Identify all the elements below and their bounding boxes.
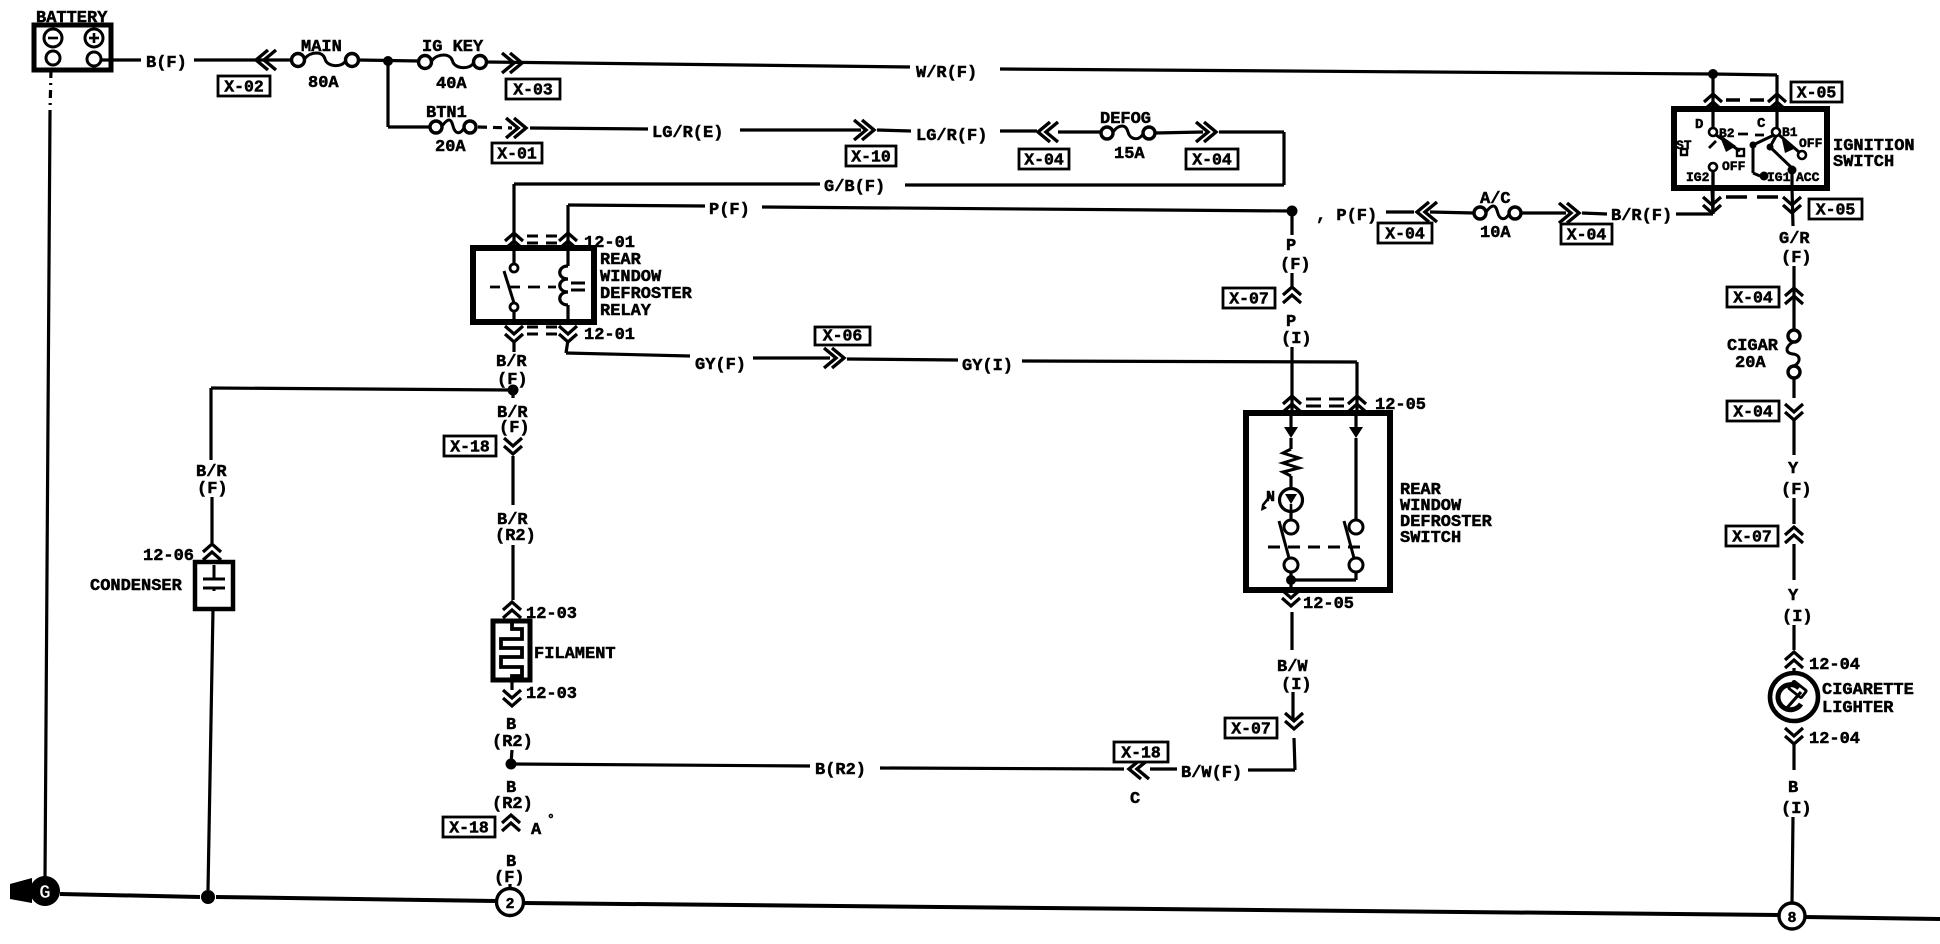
fuse A/C 10A: [1474, 207, 1486, 219]
svg-text:IG1: IG1: [1767, 170, 1791, 185]
wire junction down: [1290, 211, 1293, 235]
switch right contact bottom: [1349, 558, 1363, 572]
wire X-04 to A/C fuse: [1430, 212, 1474, 213]
connector chevron X-10: [854, 120, 874, 140]
connector label X-01: [492, 143, 542, 163]
wire W/R(F) right segment: [1000, 69, 1713, 74]
node junction B(R2): [506, 759, 517, 770]
wire to X-07: [1792, 498, 1795, 524]
connector 12-04 chevron bottom: [1785, 728, 1803, 744]
wire B(F) to MAIN fuse: [194, 58, 291, 61]
wire to X-04 A/C side: [1386, 210, 1414, 213]
connector 12-05 chevron right top: [1348, 396, 1366, 412]
svg-text:GY(I): GY(I): [962, 357, 1013, 376]
svg-text:B/R(F): B/R(F): [1611, 207, 1672, 226]
wire drop to ignition B2: [1711, 74, 1714, 128]
connector chevron X-07 down: [1285, 713, 1303, 729]
wire to X-07: [1290, 273, 1293, 287]
svg-text:OFF: OFF: [1799, 136, 1823, 151]
wire battery negative down: [45, 112, 50, 878]
svg-text:ACC: ACC: [1796, 170, 1820, 185]
relay box rear window defroster relay: [473, 248, 594, 322]
svg-text:12-05: 12-05: [1303, 595, 1354, 614]
wire resistor to indicator lamp: [1289, 476, 1292, 489]
wire bottom link to junction: [1291, 578, 1356, 581]
connector label X-04 below fuse: [1727, 401, 1779, 421]
svg-text:B/W(F): B/W(F): [1181, 764, 1242, 783]
wire GY(I) to switch corner: [1022, 361, 1357, 362]
connector label X-07 drop: [1223, 288, 1275, 308]
svg-text:X-06: X-06: [823, 327, 863, 346]
filament heating element meander: [501, 621, 522, 681]
connector chevron X-03: [502, 53, 522, 73]
wire X-07 up to B/W(I) label: [1291, 692, 1294, 719]
connector 12-05 mating dashes: [1306, 399, 1344, 406]
wire filament to 12-03: [510, 680, 513, 690]
connector chevron X-04 a/c out: [1559, 203, 1579, 223]
fuse MAIN 80A: [292, 54, 305, 67]
wire right branch down: [1354, 438, 1357, 520]
svg-text:X-18: X-18: [450, 438, 490, 457]
wire IG2 exit down to corner: [1712, 188, 1713, 214]
wire ground bus segment 1: [60, 894, 200, 897]
wire up to defroster switch 12-05: [1290, 612, 1293, 650]
wire ground bus segment 4: [1805, 917, 1940, 919]
connector X-05 chevron left bottom: [1703, 197, 1721, 213]
connector 12-01 mating dashes top: [527, 236, 557, 243]
connector 12-01 chevron right (relay top): [559, 233, 577, 249]
wire to LG/R(E) label: [530, 128, 648, 129]
connector chevron X-04 down right col: [1785, 404, 1803, 420]
wire down into defroster switch right pin: [1355, 362, 1358, 412]
relay switch blade: [504, 271, 514, 303]
connector chevron X-07 up right col: [1785, 527, 1803, 543]
relay switch contact top: [510, 264, 518, 272]
connector 12-06 chevron: [203, 544, 221, 560]
svg-text:C: C: [1757, 116, 1766, 132]
connector 12-01 chevron left (relay bottom): [505, 326, 523, 342]
connector label X-04: [1019, 149, 1069, 169]
connector 12-01 chevron left (relay top): [505, 233, 523, 249]
ignition contact IG2: [1709, 163, 1717, 171]
battery pin positive: [87, 52, 101, 66]
wire switch left feed: [1289, 413, 1292, 428]
svg-text:(F): (F): [197, 480, 228, 499]
node junction B/R to condenser branch: [508, 385, 519, 396]
ignition switch box: [1674, 109, 1827, 188]
svg-text:40A: 40A: [436, 75, 467, 94]
connector X-05 chevron right top: [1768, 94, 1786, 110]
switch right contact top: [1349, 520, 1363, 534]
svg-text:12-03: 12-03: [526, 605, 577, 624]
resistor illumination dropping: [1283, 449, 1299, 476]
svg-text:B: B: [1788, 779, 1798, 798]
svg-text:P(F): P(F): [709, 201, 750, 220]
wire to CIGAR fuse: [1792, 266, 1795, 330]
wire left contact to exit: [1289, 572, 1292, 590]
svg-text:(R2): (R2): [492, 795, 533, 814]
svg-text:X-04: X-04: [1024, 151, 1064, 170]
svg-text:OFF: OFF: [1722, 159, 1746, 174]
svg-text:X-04: X-04: [1192, 151, 1232, 170]
wire X-06 to GY(I) label: [847, 359, 958, 360]
svg-text:(F): (F): [1781, 481, 1812, 500]
wire junction down to BTN1 fuse: [386, 61, 389, 127]
wire right contact to bottom link: [1354, 572, 1357, 580]
svg-text:20A: 20A: [435, 138, 466, 157]
wire to 12-06: [210, 497, 213, 543]
connector chevron X-18 down: [504, 438, 522, 454]
connector 12-03 chevron bottom: [503, 690, 521, 706]
wire drop to ignition B1: [1775, 75, 1778, 128]
wire X-18 to B/R(R2) label: [511, 456, 514, 505]
connector label X-05 bottom: [1809, 199, 1862, 219]
connector label X-03: [506, 79, 560, 99]
wire to ground point 8: [1792, 817, 1793, 903]
wire down to defroster relay switch pin: [566, 205, 569, 248]
svg-text:RELAY: RELAY: [600, 302, 652, 321]
wire GY(F) to X-06: [753, 356, 830, 359]
wire to 12-04: [1792, 625, 1795, 650]
connector label X-04: [1186, 149, 1238, 169]
fuse CIGAR 20A: [1788, 330, 1800, 342]
svg-text:CIGARETTE: CIGARETTE: [1822, 681, 1914, 700]
node junction switch output: [1286, 575, 1296, 585]
wire relay switch pin inside: [512, 248, 515, 264]
wire B(R2) to X-18: [880, 768, 1124, 769]
switch left contact top: [1284, 520, 1298, 534]
ignition arm B1 to OFF right with arrowhead: [1778, 134, 1799, 152]
svg-text:(R2): (R2): [495, 527, 536, 546]
connector chevron X-01: [506, 118, 526, 138]
wire X-18 to B/W(F) label: [1150, 767, 1177, 770]
wire branch to condenser column: [211, 388, 513, 390]
wire G/B(F) left segment: [514, 182, 820, 185]
wire P(F) left segment: [568, 205, 705, 206]
connector chevron X-04 defog out: [1196, 122, 1216, 142]
wire stub to ignition B1 drop: [1713, 74, 1777, 75]
svg-text:(F): (F): [1280, 256, 1311, 275]
ignition ST arm tick: [1709, 141, 1716, 148]
wire GY(F) left segment: [566, 353, 690, 356]
svg-text:12-03: 12-03: [526, 685, 577, 704]
svg-text:Y: Y: [1788, 460, 1799, 479]
connector 12-03 chevron top: [503, 602, 521, 618]
svg-text:X-04: X-04: [1385, 225, 1425, 244]
svg-text:X-07: X-07: [1231, 720, 1271, 739]
battery negative terminal: [44, 29, 62, 47]
svg-text:P: P: [1286, 237, 1296, 256]
ground point circle 2: [497, 889, 524, 916]
battery B1: [34, 25, 111, 70]
ignition contact B1: [1772, 128, 1780, 136]
ignition contact B2: [1709, 128, 1717, 136]
wire A/C fuse to X-04: [1521, 211, 1566, 214]
wire relay B/R output: [512, 340, 515, 352]
node junction MAIN output: [383, 56, 393, 66]
svg-text:FILAMENT: FILAMENT: [534, 645, 616, 664]
filament box: [493, 621, 530, 680]
wire X-04 to B/R(F) label: [1582, 213, 1607, 214]
wire ACC exit down: [1792, 188, 1793, 226]
wire into lighter: [1792, 668, 1795, 673]
battery pin negative: [46, 51, 60, 65]
connector chevron X-02: [256, 50, 276, 70]
svg-text:W/R(F): W/R(F): [916, 64, 977, 83]
svg-text:SWITCH: SWITCH: [1400, 529, 1461, 548]
wire relay output down: [566, 340, 568, 353]
svg-text:X-07: X-07: [1229, 290, 1269, 309]
connector label X-04 right col: [1727, 287, 1779, 307]
switch right blade: [1344, 521, 1354, 558]
wire dashed BTN1 to X-01: [478, 127, 512, 128]
svg-text:X-10: X-10: [851, 148, 891, 167]
wire ground bus segment 3: [524, 903, 1779, 915]
wire MAIN fuse to junction and IG KEY fuse: [358, 60, 419, 61]
wire LG/R(F) to X-04: [1000, 129, 1037, 132]
wire relay switch contact to box bottom: [512, 311, 515, 322]
switch mechanical link dashed: [1268, 546, 1360, 549]
connector chevron X-18 return: [1129, 759, 1149, 779]
connector chevron X-04 defog in: [1038, 122, 1058, 142]
connector label X-06: [815, 327, 870, 345]
fuse BTN1 20A: [430, 121, 442, 133]
svg-text:C: C: [1130, 790, 1140, 809]
svg-text:G/B(F): G/B(F): [824, 178, 885, 197]
svg-text:D: D: [1695, 117, 1703, 133]
wire into ground point 2: [508, 884, 511, 889]
ground symbol G: [30, 876, 60, 906]
wire lamp to switch contact: [1289, 511, 1292, 521]
connector 12-04 chevron top: [1785, 652, 1803, 668]
connector label X-02: [218, 76, 270, 96]
connector chevron X-06: [824, 348, 844, 368]
wire lighter down: [1792, 744, 1795, 770]
connector label X-05 top: [1791, 82, 1842, 102]
svg-text:15A: 15A: [1114, 145, 1145, 164]
svg-text:X-04: X-04: [1733, 403, 1773, 422]
connector label X-07 right col: [1726, 526, 1778, 546]
connector label X-10: [846, 146, 896, 166]
ignition arm B1 to ACC: [1767, 144, 1774, 151]
wire condenser to ground bus: [208, 609, 213, 890]
connector 12-01 chevron right (relay bottom): [559, 326, 577, 342]
svg-text:12-06: 12-06: [143, 547, 194, 566]
connector chevron X-18 up: [502, 815, 520, 831]
node junction at ignition switch feed: [1708, 69, 1718, 79]
svg-text:X-03: X-03: [513, 81, 553, 100]
wire X-04 to DEFOG fuse: [1058, 130, 1101, 133]
wire B(R2) left segment: [511, 764, 810, 766]
connector chevron X-04 up right col: [1785, 288, 1803, 304]
svg-text:A: A: [531, 821, 542, 840]
wire into junction: [511, 386, 514, 398]
wire X-07 down: [1792, 544, 1795, 580]
wire ACC down inside box: [1790, 170, 1793, 188]
svg-text:20A: 20A: [1735, 354, 1766, 373]
svg-text:(I): (I): [1281, 676, 1312, 695]
wire G/B(F) right segment: [905, 183, 1284, 186]
svg-text:(F): (F): [499, 419, 530, 438]
svg-text:B/R: B/R: [496, 353, 527, 372]
ignition contact ACC: [1788, 166, 1797, 175]
svg-text:CONDENSER: CONDENSER: [90, 577, 183, 596]
wire W/R(F) left segment: [486, 62, 910, 67]
node junction P(F): [1287, 206, 1298, 217]
switch left blade: [1279, 521, 1289, 558]
wire switch right feed: [1354, 413, 1357, 428]
svg-text:X-04: X-04: [1733, 289, 1773, 308]
svg-text:(I): (I): [1281, 330, 1312, 349]
wire battery negative down dashed: [50, 70, 51, 112]
wire up into ignition switch IG2: [1711, 170, 1714, 214]
svg-text:B/W: B/W: [1277, 658, 1308, 677]
svg-text:X-18: X-18: [1121, 744, 1161, 763]
svg-text:12-04: 12-04: [1809, 730, 1860, 749]
connector chevron X-04 a/c in: [1417, 202, 1437, 222]
node junction condenser at bus: [201, 890, 215, 904]
svg-text:LG/R(F): LG/R(F): [916, 127, 987, 146]
svg-text:X-18: X-18: [449, 819, 489, 838]
cigarette lighter symbol: [1770, 673, 1818, 721]
wire corner down to G/B(F) line: [1282, 132, 1285, 185]
wire relay coil bottom lead: [566, 305, 569, 322]
wire IG2 down inside box: [1711, 171, 1714, 188]
svg-text:G: G: [39, 882, 50, 904]
svg-text:IG2: IG2: [1686, 170, 1710, 185]
connector label X-18: [444, 436, 496, 456]
svg-text:Y: Y: [1788, 587, 1799, 606]
svg-text:ST: ST: [1676, 138, 1692, 153]
ignition contact IG1: [1760, 172, 1769, 181]
wire arrowhead to resistor: [1289, 438, 1292, 449]
svg-text:SWITCH: SWITCH: [1833, 153, 1894, 172]
wire B/W(F) to corner: [1248, 768, 1295, 771]
svg-text:LIGHTER: LIGHTER: [1822, 699, 1894, 718]
connector X-05 chevron right bottom: [1783, 197, 1801, 213]
wire down into defroster switch left pin: [1290, 347, 1293, 412]
svg-text:(R2): (R2): [492, 733, 533, 752]
svg-text:°: °: [547, 812, 555, 827]
battery positive terminal: [85, 29, 103, 47]
ignition arm B2 to OFF with arrowhead: [1716, 135, 1740, 151]
svg-text:B(R2): B(R2): [815, 761, 866, 780]
wire corner up to X-07: [1294, 738, 1295, 770]
svg-text:X-05: X-05: [1797, 84, 1837, 103]
ignition contact OFF right: [1798, 151, 1806, 159]
connector 12-01 mating dashes bottom: [527, 327, 557, 334]
wire condenser branch down: [209, 388, 212, 460]
relay mechanical link dashed: [490, 286, 556, 289]
relay switch contact bottom: [510, 303, 518, 311]
wire battery to B(F) label: [101, 58, 141, 61]
ground point circle 8: [1779, 903, 1805, 929]
wire to filament connector: [511, 545, 514, 600]
svg-text:10A: 10A: [1480, 224, 1511, 243]
connector label X-18 return: [1114, 742, 1168, 762]
wire fuse to X-04: [1792, 378, 1795, 398]
svg-text:(I): (I): [1782, 608, 1813, 627]
svg-text:12-04: 12-04: [1809, 656, 1860, 675]
svg-text:, P(F): , P(F): [1316, 207, 1377, 226]
connector chevron X-07 up: [1283, 287, 1301, 303]
svg-text:LG/R(E): LG/R(E): [652, 124, 723, 143]
connector label X-04: [1561, 224, 1612, 244]
wire down to defroster relay coil pin: [512, 184, 515, 248]
svg-text:B(F): B(F): [146, 54, 187, 73]
indicator lamp circle with arrow: [1280, 489, 1303, 512]
connector 12-05 chevron bottom: [1282, 590, 1300, 606]
wire X-10 to LG/R(F) label: [877, 130, 911, 131]
switch left contact bottom: [1284, 558, 1298, 572]
wire to BTN1 fuse: [388, 125, 429, 128]
wire B/R(F) to ignition IG2 corner: [1676, 212, 1713, 215]
connector 12-05 chevron left top: [1283, 396, 1301, 412]
wire P(F) to junction: [762, 207, 1292, 211]
ignition link dashes between arms: [1738, 134, 1764, 135]
svg-text:80A: 80A: [308, 74, 339, 93]
svg-text:GY(F): GY(F): [695, 356, 746, 375]
fuse DEFOG 15A: [1101, 127, 1113, 139]
svg-text:X-04: X-04: [1567, 226, 1607, 245]
svg-text:(I): (I): [1781, 800, 1812, 819]
wire LG/R(E) to X-10: [740, 128, 861, 131]
wire DEFOG fuse to X-04: [1155, 132, 1203, 133]
connector label X-18 lower: [443, 817, 495, 837]
wire ground bus segment 2: [216, 897, 496, 901]
connector label X-07 return: [1225, 718, 1277, 738]
ignition ST contact square: [1681, 149, 1687, 155]
condenser capacitor symbol: [203, 565, 225, 591]
wire relay coil top lead: [566, 248, 569, 266]
ignition arm B1 to IG1: [1753, 135, 1774, 145]
svg-text:8: 8: [1787, 910, 1796, 927]
wire to Y(F) label: [1792, 420, 1795, 455]
condenser box: [195, 562, 233, 609]
svg-text:X-01: X-01: [497, 145, 537, 164]
svg-text:G/R: G/R: [1779, 230, 1810, 249]
svg-text:12-01: 12-01: [584, 326, 635, 345]
switch box rear window defroster switch: [1246, 413, 1390, 590]
svg-text:X-02: X-02: [224, 78, 264, 97]
svg-text:(F): (F): [1781, 249, 1812, 268]
connector label X-04: [1378, 223, 1432, 243]
wire into B(R2) junction: [511, 750, 512, 764]
wire X-04 to corner: [1219, 130, 1284, 133]
svg-text:X-07: X-07: [1732, 528, 1772, 547]
svg-text:X-05: X-05: [1816, 201, 1856, 220]
svg-text:IG KEY: IG KEY: [422, 38, 484, 57]
svg-text:2: 2: [505, 896, 514, 913]
connector X-05 chevron left top: [1704, 94, 1722, 110]
fuse IG KEY 40A: [419, 56, 432, 69]
relay coil: [560, 266, 568, 305]
